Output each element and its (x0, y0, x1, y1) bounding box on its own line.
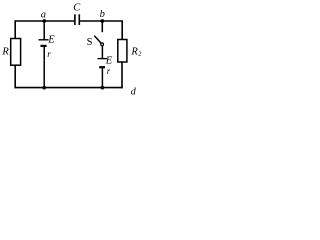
battery E2 short plate (99, 66, 105, 68)
svg-text:b: b (100, 9, 105, 20)
svg-text:E: E (105, 56, 113, 67)
battery E1 long plate (39, 39, 49, 41)
switch S contact circle (101, 43, 104, 46)
junction dot left on bottom wire (42, 86, 46, 90)
wire switch down to battery E2 (101, 46, 103, 59)
svg-text:C: C (73, 3, 81, 14)
switch S blade (94, 36, 101, 44)
svg-text:r: r (107, 66, 111, 76)
svg-text:E: E (47, 34, 55, 45)
wire left edge lower (R1 bottom to bottom-left corner) (14, 65, 16, 88)
wire right edge lower (R2 bottom to bottom-right corner) (121, 62, 123, 88)
resistor R2 (118, 40, 127, 63)
node b (100, 19, 104, 23)
capacitor C right plate (78, 14, 80, 25)
svg-text:a: a (41, 10, 46, 21)
wire left edge upper (corner to R1 top) (14, 20, 16, 38)
resistor R1 (11, 39, 21, 66)
wire battery E2 down to bottom wire (101, 67, 103, 87)
battery E1 short plate (41, 45, 47, 47)
junction dot right on bottom wire (101, 86, 105, 90)
wire bottom (bottom-left corner to bottom-right corner) (15, 87, 123, 89)
wire node a down to battery E1 (43, 21, 45, 40)
svg-text:d: d (131, 87, 137, 98)
wire right edge upper (top-right corner to R2 top) (121, 21, 123, 40)
node a (42, 19, 46, 23)
wire top-left corner to capacitor left plate (through node a) (15, 20, 75, 22)
battery E2 long plate (98, 58, 108, 60)
capacitor C left plate (74, 14, 76, 25)
svg-text:S: S (87, 37, 93, 48)
svg-text:1: 1 (9, 51, 12, 58)
svg-text:r: r (47, 49, 51, 59)
wire node b down to switch terminal (101, 21, 103, 32)
wire battery E1 down to bottom wire (43, 46, 45, 88)
wire capacitor right plate to top-right corner (through node b) (79, 20, 123, 22)
svg-text:2: 2 (138, 51, 142, 58)
